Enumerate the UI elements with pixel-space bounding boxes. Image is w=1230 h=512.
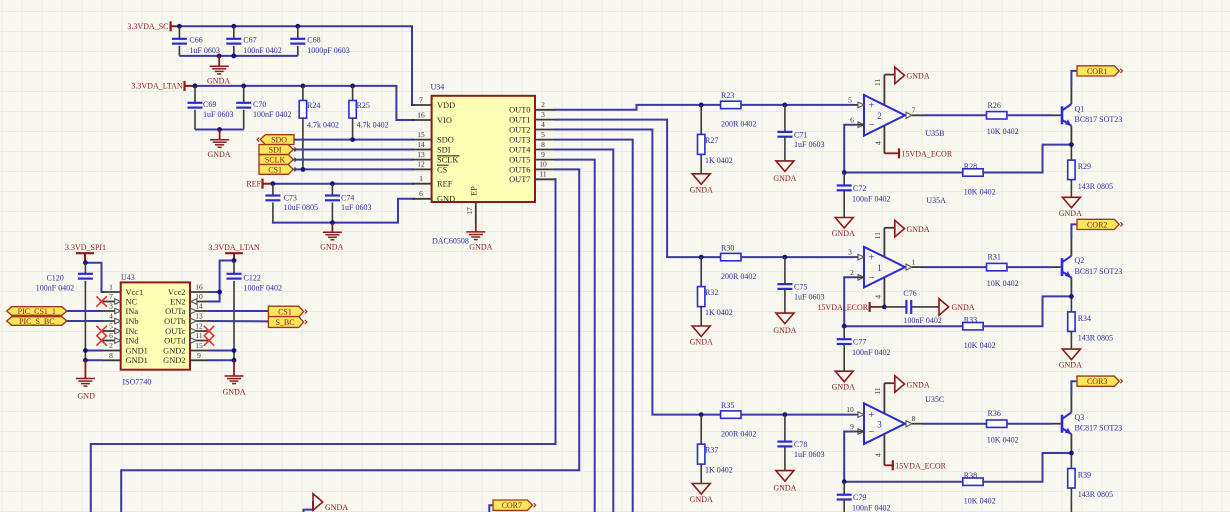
svg-text:GNDA: GNDA	[1059, 209, 1082, 218]
power port 3.3VDA_SC	[127, 21, 179, 31]
wire stage3 output to base resistor	[912, 423, 986, 425]
no-connect X on U43 pin 5	[96, 326, 106, 336]
resistor R29 143R 0805	[1068, 160, 1113, 197]
capacitor C71 1uF 0603	[777, 105, 824, 161]
pin 7 VDD of U34	[412, 95, 455, 110]
wire stage2 feedback to emitter node	[983, 296, 1071, 326]
svg-text:GND2: GND2	[163, 356, 185, 365]
svg-text:Vcc1: Vcc1	[126, 288, 144, 297]
resistor R23 200R 0402	[721, 91, 757, 129]
pin 4 OUT2 of U34	[509, 120, 555, 135]
pin 12 CS of U34	[412, 160, 449, 175]
svg-text:5: 5	[109, 322, 113, 331]
junction under C74	[330, 220, 335, 225]
svg-text:+: +	[868, 99, 874, 111]
capacitor C120 100nF 0402	[36, 263, 93, 361]
pin 6 INd of U43	[103, 331, 140, 345]
svg-text:U35A: U35A	[926, 196, 946, 205]
svg-text:14: 14	[417, 140, 425, 149]
svg-text:C73: C73	[284, 193, 297, 202]
svg-text:VIO: VIO	[437, 116, 452, 125]
svg-text:1: 1	[877, 263, 882, 273]
svg-text:GNDA: GNDA	[773, 484, 796, 493]
pin 3 INa of U43	[103, 302, 139, 316]
svg-text:OUT2: OUT2	[509, 125, 530, 134]
pin 10 EN2 of U43	[170, 292, 208, 306]
svg-text:100nF 0402: 100nF 0402	[244, 284, 282, 293]
label DAC60508	[432, 236, 469, 245]
svg-text:7: 7	[912, 106, 916, 115]
capacitor C69 1uF 0603	[188, 86, 234, 130]
svg-text:−: −	[868, 119, 874, 131]
ground GNDA below C72	[832, 218, 855, 239]
svg-text:4: 4	[541, 120, 545, 129]
junction stage1 input at R divider	[699, 103, 704, 108]
svg-text:GND2: GND2	[163, 346, 185, 355]
svg-text:C74: C74	[341, 193, 354, 202]
port SDI	[259, 145, 297, 155]
svg-text:INc: INc	[126, 327, 139, 336]
svg-text:Q2: Q2	[1075, 256, 1085, 265]
pin 15 SDO of U34	[412, 130, 454, 145]
svg-text:U35C: U35C	[925, 395, 944, 404]
svg-text:10K 0402: 10K 0402	[964, 341, 996, 350]
svg-text:8: 8	[541, 140, 545, 149]
power port 15VDA_ECOR stage2	[817, 302, 884, 312]
svg-text:100nF 0402: 100nF 0402	[243, 46, 281, 55]
svg-text:SDO: SDO	[437, 136, 454, 145]
junction 3.3VD_SPI1 at C120	[83, 260, 88, 265]
junction stage3 input at filter cap	[783, 412, 788, 417]
junction stage2 input at filter cap	[783, 255, 788, 260]
svg-text:R23: R23	[721, 91, 734, 100]
svg-text:4.7k 0402: 4.7k 0402	[307, 121, 339, 130]
resistor R26 10K 0402	[987, 101, 1019, 136]
pin 11 OUTd of U43	[164, 331, 208, 345]
pin 9 GND2 of U43	[163, 351, 208, 365]
svg-text:10K 0402: 10K 0402	[964, 187, 996, 196]
svg-text:15VDA_ECOR: 15VDA_ECOR	[895, 461, 946, 470]
wire stage3 inverting input to feedback node	[844, 432, 963, 482]
svg-text:GNDA: GNDA	[320, 243, 343, 252]
pin 16 VIO of U34	[412, 110, 452, 125]
svg-text:15VDA_ECOR: 15VDA_ECOR	[817, 303, 868, 312]
svg-text:R34: R34	[1078, 314, 1091, 323]
svg-text:BC817 SOT23: BC817 SOT23	[1075, 424, 1123, 433]
svg-text:GNDA: GNDA	[469, 243, 492, 252]
svg-text:GNDA: GNDA	[773, 326, 796, 335]
wire REF to U34 pin 1	[273, 183, 414, 185]
wire U43 GND1 pins to C120	[85, 351, 102, 361]
pin 16 Vcc2 of U43	[168, 283, 209, 297]
svg-text:10K 0402: 10K 0402	[987, 279, 1019, 288]
wire U43 pin 13 to port S_BC	[209, 320, 269, 322]
svg-text:R35: R35	[721, 401, 734, 410]
svg-text:OUT6: OUT6	[509, 165, 530, 174]
junction LTAN rail at C70	[241, 84, 246, 89]
svg-text:143R 0805: 143R 0805	[1078, 182, 1113, 191]
wire ground rail under C69-C70	[195, 129, 244, 131]
svg-text:6: 6	[419, 189, 423, 198]
transistor Q2 BC817 SOT23	[1062, 256, 1122, 278]
transistor Q1 BC817 SOT23	[1062, 104, 1122, 126]
svg-text:GND1: GND1	[126, 346, 148, 355]
capacitor C76 100nF 0402	[884, 289, 941, 325]
svg-text:GNDA: GNDA	[207, 76, 230, 85]
svg-text:1: 1	[912, 257, 916, 266]
svg-text:2: 2	[109, 341, 113, 350]
svg-text:Q3: Q3	[1075, 413, 1085, 422]
op-amp U35 unit U35B	[848, 95, 916, 136]
svg-text:4: 4	[109, 312, 113, 321]
junction stage3 feedback node	[842, 479, 847, 484]
svg-text:Q1: Q1	[1075, 104, 1085, 113]
wire OUT1 to stage2 input	[555, 120, 701, 258]
wire stage2 op-amp V- pin	[873, 277, 884, 307]
pin 11 OUT7 of U34	[509, 170, 555, 185]
svg-text:3: 3	[877, 420, 882, 430]
svg-text:100nF 0402: 100nF 0402	[36, 284, 74, 293]
resistor R28 10K 0402	[963, 162, 996, 197]
port COR7	[493, 500, 536, 510]
ground GNDA below R27	[690, 174, 713, 195]
wire stage2 inverting input to feedback node	[844, 277, 963, 326]
op-amp U35 unit U35C	[846, 403, 915, 444]
svg-text:REF: REF	[437, 180, 453, 189]
svg-text:−: −	[868, 272, 874, 284]
wire net 3.3VDA_LTAN rail to U34 pin 16	[195, 86, 414, 120]
no-connect X on U43 pin 12	[204, 326, 214, 336]
ground GNDA below C78	[773, 471, 796, 493]
svg-text:GNDA: GNDA	[207, 150, 230, 159]
pin 10 OUT6 of U34	[509, 160, 555, 175]
wire stage1 feedback to emitter node	[983, 145, 1071, 173]
port COR3	[1077, 376, 1123, 386]
capacitor C78 1uF 0603	[777, 415, 824, 471]
ground GNDA below C71	[773, 161, 796, 183]
wire stage2 op-amp V+ pin to GNDA	[873, 228, 895, 257]
wire OUT3 down off-sheet	[555, 140, 633, 512]
capacitor C67 100nF 0402	[226, 26, 281, 56]
svg-text:OUT7: OUT7	[509, 175, 530, 184]
junction REF at C74	[330, 181, 335, 186]
ground GNDA below R37	[690, 484, 713, 505]
resistor R38 10K 0402	[963, 471, 996, 506]
junction C120 at GND1 pin 2	[83, 348, 88, 353]
ground GNDA below C77	[832, 371, 855, 392]
ground GNDA below U34 EP	[466, 223, 492, 252]
svg-text:OUT3: OUT3	[509, 136, 530, 145]
wire OUT7 down and left off-sheet	[91, 179, 556, 512]
wire Q3 emitter to R39	[1070, 434, 1072, 468]
junction LTAN rail at R25	[350, 84, 355, 89]
ground GNDA below R29	[1059, 197, 1082, 218]
svg-text:COR1: COR1	[1087, 67, 1107, 76]
label ISO7740	[123, 377, 152, 386]
svg-text:1uF 0603: 1uF 0603	[794, 450, 824, 459]
port SDO	[257, 135, 294, 145]
svg-text:10: 10	[539, 160, 547, 169]
svg-text:11: 11	[873, 232, 882, 239]
svg-text:GNDA: GNDA	[325, 503, 348, 512]
svg-text:DAC60508: DAC60508	[432, 236, 469, 245]
pin 7 NC of U43	[103, 292, 138, 306]
pin 1 REF of U34	[412, 174, 453, 189]
wire to GNDA at sheet bottom	[304, 502, 314, 512]
svg-text:200R 0402: 200R 0402	[721, 429, 756, 438]
svg-text:5: 5	[541, 130, 545, 139]
svg-text:SDI: SDI	[437, 145, 451, 154]
svg-text:U34: U34	[431, 83, 445, 92]
junction stage1 feedback node	[842, 170, 847, 175]
label U35C	[925, 395, 944, 404]
svg-text:Vcc2: Vcc2	[168, 288, 186, 297]
resistor R27 1K 0402	[698, 105, 733, 174]
svg-text:R31: R31	[988, 253, 1001, 262]
junction ground rail at GNDA stem	[217, 54, 222, 59]
ground GNDA below C66-C68	[207, 56, 230, 85]
pin 12 OUTc of U43	[165, 322, 208, 336]
svg-text:3: 3	[848, 248, 852, 257]
wire Q3 collector to COR3	[1071, 381, 1077, 412]
power port 15VDA_ECOR stage3	[884, 460, 946, 470]
svg-text:1: 1	[109, 283, 113, 292]
svg-text:1K 0402: 1K 0402	[705, 466, 733, 475]
no-connect X on U43 pin 11	[204, 335, 214, 345]
junction LTAN at C122	[232, 258, 237, 263]
junction ground rail at C67	[231, 54, 236, 59]
svg-text:1: 1	[419, 174, 423, 183]
svg-text:100nF 0402: 100nF 0402	[852, 348, 890, 357]
wire stage1 inverting input to feedback node	[844, 125, 963, 173]
svg-text:R37: R37	[705, 446, 718, 455]
capacitor C73 10uF 0805	[265, 184, 318, 223]
capacitor C75 1uF 0603	[777, 257, 824, 313]
svg-text:GNDA: GNDA	[952, 303, 975, 312]
junction under C69-C70 rail	[217, 127, 222, 132]
svg-text:GNDA: GNDA	[773, 174, 796, 183]
svg-text:1uF 0603: 1uF 0603	[189, 46, 219, 55]
svg-text:OUTd: OUTd	[164, 336, 186, 345]
svg-text:R28: R28	[964, 162, 977, 171]
svg-text:COR2: COR2	[1087, 220, 1107, 229]
svg-text:OUT5: OUT5	[509, 156, 530, 165]
capacitor C74 1uF 0603	[325, 184, 372, 223]
ground GNDA below R32	[690, 326, 713, 347]
svg-text:OUTb: OUTb	[164, 317, 185, 326]
wire Q1 collector to COR1	[1071, 71, 1077, 104]
pin 13 SCLK of U34	[412, 150, 460, 165]
pin 8 OUT4 of U34	[509, 140, 555, 155]
label U35A	[926, 196, 946, 205]
power port 3.3VD_SPI1	[65, 243, 106, 263]
svg-text:1000pF 0603: 1000pF 0603	[307, 46, 349, 55]
svg-text:6: 6	[850, 115, 854, 124]
wire stage3 op-amp V+ pin to GNDA	[873, 383, 895, 413]
junction stage3 input at R divider	[699, 412, 704, 417]
svg-text:U35B: U35B	[925, 129, 944, 138]
svg-text:C67: C67	[243, 36, 256, 45]
power port 3.3VDA_LTAN at U43	[208, 243, 260, 260]
svg-text:VDD: VDD	[437, 101, 455, 110]
port S_BC at U43	[268, 317, 307, 328]
wire 3.3VD_SPI1 to U43 pin 1	[85, 263, 102, 292]
svg-text:C77: C77	[853, 338, 866, 347]
svg-text:U43: U43	[121, 273, 135, 282]
wire 3.3VDA_LTAN to U43 pins 16 and 10	[209, 261, 235, 302]
svg-text:R27: R27	[705, 136, 718, 145]
capacitor C68 1000pF 0603	[290, 26, 349, 56]
svg-text:8: 8	[912, 414, 916, 423]
svg-text:CS: CS	[437, 165, 448, 174]
svg-text:PIC_CS1_1: PIC_CS1_1	[18, 307, 56, 316]
svg-text:C69: C69	[203, 100, 216, 109]
pin 13 OUTb of U43	[164, 312, 208, 326]
junction stage2 input at R divider	[699, 255, 704, 260]
wire stage1 input row	[701, 104, 864, 106]
svg-text:143R 0805: 143R 0805	[1078, 490, 1113, 499]
svg-text:7: 7	[109, 292, 113, 301]
svg-text:+: +	[868, 409, 874, 421]
svg-text:GNDA: GNDA	[907, 380, 930, 389]
wire Q1 emitter to R29	[1070, 126, 1072, 160]
svg-text:12: 12	[417, 160, 425, 169]
capacitor C70 100nF 0402	[236, 86, 291, 130]
svg-text:15VDA_ECOR: 15VDA_ECOR	[902, 149, 953, 158]
svg-text:15: 15	[417, 130, 425, 139]
svg-text:R29: R29	[1078, 162, 1091, 171]
svg-text:15: 15	[195, 341, 203, 350]
svg-text:C75: C75	[794, 283, 807, 292]
svg-text:3: 3	[541, 110, 545, 119]
wire SCLK to U34 pin 13	[293, 159, 414, 161]
ground GNDA below C73-C74	[320, 223, 343, 252]
wire Q2 emitter to R34	[1070, 278, 1072, 312]
capacitor C77 100nF 0402	[837, 326, 891, 371]
svg-text:12: 12	[195, 322, 203, 331]
transistor Q3 BC817 SOT23	[1062, 412, 1122, 434]
svg-text:GNDA: GNDA	[222, 388, 245, 397]
wire stage3 feedback to emitter node	[983, 453, 1071, 482]
svg-text:SCLK: SCLK	[265, 156, 286, 165]
resistor R33 10K 0402	[963, 316, 996, 351]
svg-text:13: 13	[417, 150, 425, 159]
ground GND below C120	[76, 360, 95, 400]
svg-text:R32: R32	[705, 288, 718, 297]
svg-text:GNDA: GNDA	[832, 383, 855, 392]
capacitor C122 100nF 0402	[227, 261, 282, 361]
junction LTAN rail at R24	[301, 84, 306, 89]
svg-text:4.7k 0402: 4.7k 0402	[357, 121, 389, 130]
ground GNDA below C122	[222, 360, 245, 396]
pin 6 GND of U34	[412, 189, 455, 204]
svg-text:C71: C71	[794, 130, 807, 139]
svg-text:GNDA: GNDA	[690, 185, 713, 194]
junction LTAN rail at C69	[193, 84, 198, 89]
pin 2 OUT0 of U34	[509, 100, 555, 115]
svg-text:1K 0402: 1K 0402	[705, 308, 733, 317]
svg-text:REF: REF	[246, 180, 261, 189]
svg-text:2: 2	[850, 268, 854, 277]
svg-text:11: 11	[195, 331, 202, 340]
pin 5 INc of U43	[103, 322, 139, 336]
ground GNDA below C69-C70	[207, 130, 230, 160]
svg-text:4: 4	[873, 453, 882, 457]
wire ground rail under C66-C68	[179, 55, 297, 57]
wire stage1 op-amp V+ pin to GNDA	[873, 75, 895, 105]
svg-text:GND1: GND1	[126, 356, 148, 365]
svg-text:INd: INd	[126, 336, 140, 345]
wire R36 to Q3 base	[1007, 423, 1061, 425]
resistor R34 143R 0805	[1068, 312, 1113, 349]
svg-text:C68: C68	[307, 36, 320, 45]
power port REF	[246, 179, 273, 189]
svg-text:C120: C120	[46, 273, 63, 282]
wire to COR7 port at sheet bottom	[489, 505, 493, 512]
svg-text:GNDA: GNDA	[1059, 361, 1082, 370]
svg-text:2: 2	[877, 111, 882, 121]
wire PIC_CS1_1 to U43 pin 3	[67, 310, 103, 312]
pin 17 EP of U34	[465, 186, 479, 223]
junction stage2 supply pin	[882, 305, 887, 310]
svg-text:C122: C122	[244, 273, 261, 282]
power port GNDA above stage2 op-amp	[895, 220, 930, 237]
svg-text:OUT0: OUT0	[509, 106, 530, 115]
svg-text:8: 8	[109, 351, 113, 360]
svg-text:17: 17	[465, 207, 474, 215]
svg-text:3.3VDA_SC: 3.3VDA_SC	[127, 22, 168, 31]
svg-text:11: 11	[873, 79, 882, 86]
svg-text:4: 4	[873, 295, 882, 299]
svg-text:SCLK: SCLK	[437, 156, 458, 165]
power port GNDA above stage3 op-amp	[895, 376, 930, 393]
junction C122 at GND2 pin 9	[232, 358, 237, 363]
power port GNDA right of C76	[939, 299, 975, 316]
svg-text:COR7: COR7	[502, 501, 522, 510]
wire R31 to Q2 base	[1007, 266, 1061, 268]
svg-text:R24: R24	[307, 101, 320, 110]
svg-text:S_BC: S_BC	[275, 318, 294, 327]
svg-text:GND: GND	[437, 195, 455, 204]
op-amp supply block U34 DAC60508 body	[431, 83, 536, 203]
svg-text:C72: C72	[853, 184, 866, 193]
svg-text:BC817 SOT23: BC817 SOT23	[1075, 267, 1123, 276]
port SCLK	[259, 155, 297, 165]
svg-text:C79: C79	[853, 493, 866, 502]
svg-text:SDO: SDO	[271, 136, 287, 145]
svg-text:100nF 0402: 100nF 0402	[852, 194, 890, 203]
junction C122 at GND2 pin 15	[232, 348, 237, 353]
capacitor C66 1uF 0603	[172, 26, 220, 56]
svg-text:1uF 0603: 1uF 0603	[203, 110, 233, 119]
capacitor C79 100nF 0402	[837, 482, 891, 512]
svg-text:OUTa: OUTa	[165, 307, 186, 316]
port CS1 at U43	[268, 306, 307, 317]
junction on SC rail at C67	[231, 24, 236, 29]
wire OUT5 down off-sheet	[555, 160, 595, 512]
wire R26 to Q1 base	[1007, 114, 1061, 116]
port PIC_CS1_1	[7, 307, 67, 316]
wire stage3 input row	[701, 414, 864, 416]
svg-text:100nF 0402: 100nF 0402	[253, 110, 291, 119]
digital isolator U43 body	[121, 273, 190, 370]
svg-text:OUT1: OUT1	[509, 116, 530, 125]
svg-text:1K 0402: 1K 0402	[705, 156, 733, 165]
resistor R39 143R 0805	[1068, 469, 1113, 512]
svg-text:R30: R30	[721, 243, 734, 252]
svg-text:INb: INb	[126, 317, 139, 326]
svg-text:100nF 0402: 100nF 0402	[903, 316, 941, 325]
